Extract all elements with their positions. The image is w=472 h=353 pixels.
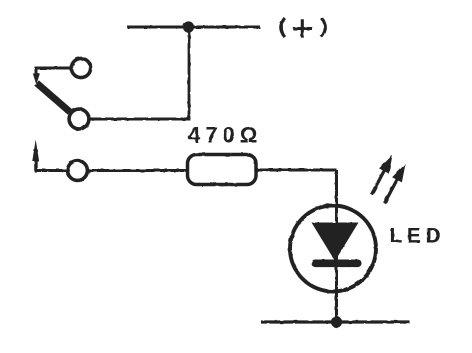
LED cathode bar: [312, 260, 362, 268]
wire: ground rail: [261, 320, 410, 323]
wire: terminal to resistor: [88, 169, 187, 172]
svg-text:470Ω: 470Ω: [188, 123, 262, 148]
LED anode triangle: [312, 223, 359, 262]
wire: resistor to LED corner: [256, 169, 337, 172]
node (+) label: plus sign: [293, 19, 312, 37]
wire: LED anode drop to ground: [335, 170, 338, 322]
input arrowhead: [32, 140, 39, 162]
switch actuation arrowhead: [33, 74, 40, 85]
junction dot ground: [331, 316, 342, 327]
node (+) label: right parenthesis: [321, 18, 325, 37]
LED D1 body circle: [290, 206, 376, 292]
resistor R1 body: [188, 155, 257, 185]
svg-text:LED: LED: [390, 224, 446, 247]
light emission arrow 2 head: [392, 164, 405, 183]
switch S1 lever: [37, 83, 70, 112]
junction dot top: [183, 21, 194, 32]
wire: switch lower terminal to vertical: [90, 118, 190, 121]
wire: input stem and lead to terminal: [36, 158, 67, 171]
input terminal circle: [68, 161, 88, 181]
light emission arrow 1 head: [379, 155, 392, 174]
switch S1 upper terminal: [71, 58, 90, 77]
light emission arrow 2 stem: [385, 179, 398, 203]
node (+) label: left parenthesis: [281, 18, 285, 37]
wire: top positive rail: [127, 26, 260, 29]
wire: junction down to switch row: [188, 27, 191, 119]
wire: upper terminal stub to pivot: [36, 68, 71, 74]
light emission arrow 1 stem: [372, 171, 385, 195]
switch S1 lower terminal: [69, 109, 89, 129]
